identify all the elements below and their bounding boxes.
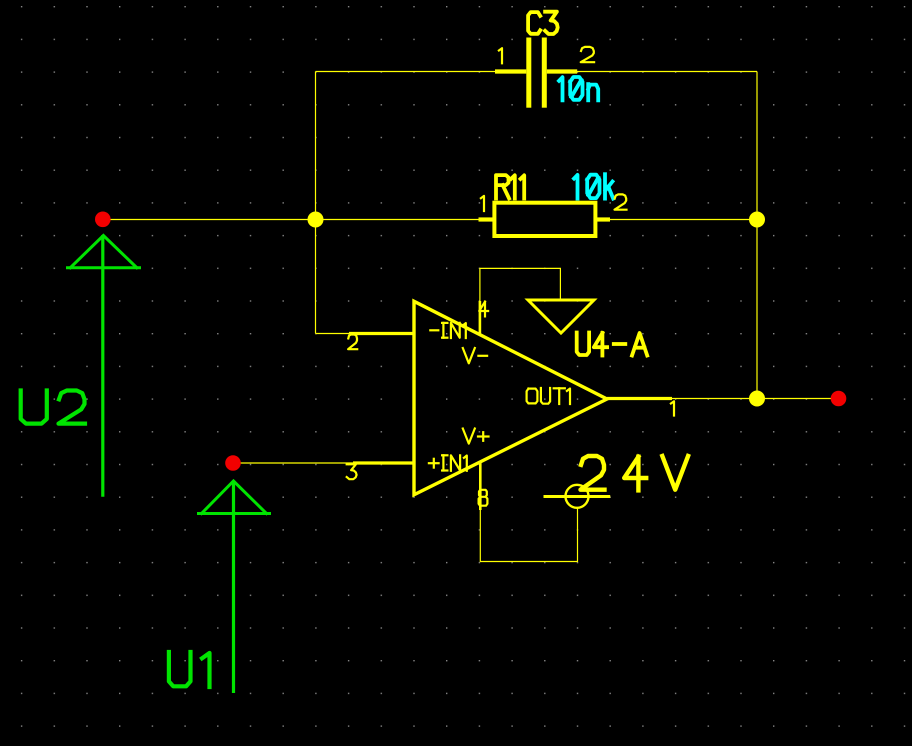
R11 pin 1 number	[481, 196, 484, 211]
junction at (315.5,219.5)	[308, 212, 324, 228]
wire vertical x=315.5 from top feedback to pin2 path	[315, 72, 317, 334]
op-amp label -IN1	[430, 323, 466, 338]
op-amp pin 8 number	[479, 490, 488, 506]
junction at (757,398.5)	[749, 391, 765, 407]
wire pin 8 to 24V power port	[480, 509, 577, 562]
op-amp designator label U4-A	[577, 333, 648, 356]
wire pin 4 to V- power port	[480, 268, 561, 301]
wire top feedback y=71.5 left of C3	[316, 71, 497, 73]
port dot at U2 probe	[95, 212, 111, 228]
capacitor C3	[495, 38, 577, 108]
wire to op-amp pin 2	[316, 333, 350, 335]
op-amp label V-	[463, 348, 487, 363]
op-amp label +IN1	[429, 455, 467, 471]
wire output net y=398.5	[672, 398, 839, 400]
op-amp label OUT1	[527, 388, 570, 404]
op-amp U4-A body	[414, 301, 607, 495]
op-amp output pin 1 number	[671, 401, 674, 415]
port dot at U1 probe	[225, 455, 241, 471]
op-amp pin 4 number	[479, 302, 488, 317]
power port 24V symbol	[544, 485, 611, 508]
R11 designator label	[496, 175, 524, 198]
probe U2 label	[21, 391, 85, 424]
C3 pin 1 number	[499, 48, 502, 63]
wire right vertical x=756.5	[756, 72, 758, 399]
R11 pin 2 number	[615, 194, 627, 209]
port dot at output	[831, 391, 847, 407]
probe U2 arrow	[66, 235, 141, 497]
power port V- triangle	[528, 300, 594, 333]
wire net A horizontal y=219.5 left segment	[103, 219, 480, 221]
probe U1 label	[169, 652, 210, 687]
C3 pin 2 number	[581, 47, 594, 62]
probe U1 arrow	[197, 481, 271, 694]
24V net label	[581, 456, 689, 490]
op-amp pin leads (2,3,out,4,8)	[349, 301, 672, 510]
wire net A horizontal y=219.5 right segment	[610, 219, 757, 221]
C3 value 10n	[559, 77, 598, 100]
resistor R11	[479, 203, 611, 236]
op-amp label V+	[463, 429, 489, 444]
op-amp pin 2 number	[348, 335, 357, 350]
junction at (757,219.5)	[749, 212, 765, 228]
C3 designator label	[528, 12, 558, 34]
op-amp pin 3 number	[347, 464, 357, 479]
wire top feedback y=71.5 right of C3	[577, 71, 757, 73]
wire from port to op-amp pin 3	[233, 462, 353, 464]
R11 value 10k	[574, 174, 613, 198]
